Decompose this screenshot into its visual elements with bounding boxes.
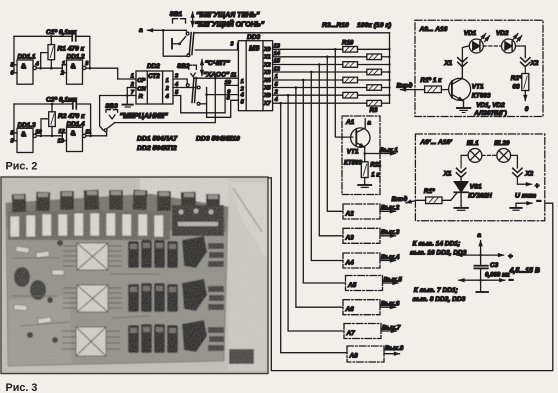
svg-text:DD3 564ИЕ10: DD3 564ИЕ10 <box>196 136 240 143</box>
svg-text:VD2: VD2 <box>496 30 509 37</box>
photo Ris3 PCB <box>1 177 268 374</box>
resistor R7 <box>367 69 390 75</box>
wire X6 row <box>273 94 343 96</box>
svg-text:Вых.4: Вых.4 <box>381 254 400 261</box>
photo grain overlay <box>1 177 268 374</box>
node a stub in A1 <box>365 119 371 128</box>
svg-text:А2: А2 <box>345 210 355 217</box>
resistor R4 <box>343 92 390 98</box>
svg-text:X0: X0 <box>263 47 271 53</box>
svg-text:СТ2: СТ2 <box>148 73 160 80</box>
SB2 blade chevron <box>191 73 195 77</box>
svg-text:Рис. 3: Рис. 3 <box>6 382 38 393</box>
svg-text:VS1: VS1 <box>470 184 483 191</box>
wire Vyh7 <box>381 330 397 332</box>
SB2 actuator bracket <box>189 65 197 69</box>
svg-text:“МЕРЦАНИЕ”: “МЕРЦАНИЕ” <box>120 111 169 120</box>
IC chips column <box>76 243 108 356</box>
svg-text:8: 8 <box>227 96 231 102</box>
node junction R1 bottom <box>50 67 53 70</box>
svg-text:DD1.1: DD1.1 <box>18 54 37 61</box>
svg-text:4: 4 <box>274 97 279 103</box>
node junction R stub <box>126 94 129 97</box>
svg-text:R2 470 к: R2 470 к <box>58 113 85 120</box>
resistor R6 <box>343 77 390 83</box>
svg-text:4: 4 <box>165 94 170 100</box>
dark module top right <box>172 205 224 236</box>
resistor R11 <box>361 154 368 185</box>
wire CN-R ground vertical <box>126 88 128 105</box>
wire SB1 lower contact feed <box>163 30 187 56</box>
cell A3 dashed box <box>343 228 380 243</box>
svg-text:X5: X5 <box>263 86 272 92</box>
svg-text:X7: X7 <box>263 101 272 107</box>
node junction rail r4 <box>388 94 390 96</box>
svg-text:С2* 0,1мк: С2* 0,1мк <box>46 97 77 104</box>
wire to DD3 pin8 <box>207 100 239 117</box>
svg-text:КТ603: КТ603 <box>472 92 491 99</box>
svg-text:14: 14 <box>274 51 281 57</box>
svg-text:4: 4 <box>240 92 245 98</box>
svg-text:Вход: Вход <box>397 82 413 90</box>
node junction R2 tap <box>40 135 43 138</box>
wire minus supply line <box>459 279 505 281</box>
switch SB3 МЕРЦАНИЕ <box>100 96 118 132</box>
svg-text:2: 2 <box>60 71 65 77</box>
svg-text:Вых.3: Вых.3 <box>381 229 400 236</box>
svg-text:Вых.7: Вых.7 <box>382 324 401 331</box>
svg-text:11: 11 <box>231 73 237 79</box>
svg-text:КУ202Н: КУ202Н <box>468 193 492 200</box>
wire DD1.2 out to DD2 CP <box>86 68 136 79</box>
svg-text:VT1: VT1 <box>347 149 359 156</box>
resistor R3 <box>367 100 390 106</box>
resistor R9 <box>367 54 390 60</box>
chip legs <box>62 246 122 349</box>
lamp EL1 <box>468 149 482 163</box>
wire Vyh4 <box>380 260 396 262</box>
transistor VT1 KT503 <box>351 128 370 154</box>
svg-text:А4: А4 <box>345 259 355 266</box>
wire X4 row <box>273 79 343 81</box>
node junction X1 <box>326 56 329 59</box>
svg-text:DD1 564ЛА7: DD1 564ЛА7 <box>137 136 178 143</box>
relay clusters right <box>128 236 207 353</box>
node junction R2 bottom <box>51 135 54 138</box>
node junction minus line <box>479 279 482 282</box>
wire X0 row <box>273 48 343 50</box>
node junction pin11 wire <box>214 77 217 80</box>
svg-text:А6: А6 <box>345 306 355 313</box>
wire C2 to DD1.4 output <box>77 104 91 136</box>
top row of transistors <box>12 190 220 213</box>
node junction plus line <box>479 254 482 257</box>
wire right rail <box>389 33 391 103</box>
svg-text:R: R <box>139 94 144 100</box>
svg-text:EL1: EL1 <box>467 140 479 147</box>
svg-text:R11: R11 <box>370 162 381 169</box>
svg-text:CP: CP <box>137 78 145 84</box>
svg-text:−: − <box>536 196 541 205</box>
svg-text:0: 0 <box>525 106 529 113</box>
svg-text:&: & <box>71 131 76 138</box>
node junction rail r9 <box>388 56 390 58</box>
svg-text:VD1: VD1 <box>464 30 477 37</box>
wire drop X0 to A1 base <box>335 49 353 137</box>
svg-text:X3: X3 <box>263 70 271 76</box>
wire osc2 top <box>14 103 72 105</box>
svg-text:5: 5 <box>241 99 245 105</box>
ground bar power <box>476 291 488 293</box>
svg-text:SB3: SB3 <box>105 103 118 110</box>
svg-text:VT1: VT1 <box>472 84 484 91</box>
svg-text:CN: CN <box>137 86 146 92</box>
node junction X2 <box>318 63 321 66</box>
gate DD1.4 <box>62 127 86 151</box>
svg-text:А9... А16: А9... А16 <box>419 26 448 33</box>
svg-text:R1 470 к: R1 470 к <box>58 45 85 52</box>
wire SB2 lower contact to node <box>200 103 207 105</box>
wire DD2 CN stub <box>127 87 136 89</box>
wire VS1 to X1' <box>460 178 462 182</box>
svg-text:1: 1 <box>131 74 134 80</box>
ground box1 <box>457 108 470 113</box>
svg-text:SB1: SB1 <box>170 11 183 18</box>
resistor R10 <box>343 47 390 53</box>
wire Vyh1 <box>365 153 396 155</box>
node junction R1 tap <box>39 67 42 70</box>
svg-text:А9ʼ... А16ʼ: А9ʼ... А16ʼ <box>419 139 452 146</box>
svg-text:13: 13 <box>274 43 281 49</box>
wire dashed EL1-EL20 <box>482 154 497 156</box>
svg-text:А5: А5 <box>347 282 357 289</box>
svg-text:X2: X2 <box>263 62 271 68</box>
wire X1' to EL1 <box>461 154 468 156</box>
svg-text:А3: А3 <box>345 235 355 242</box>
wire node a vertical <box>480 241 482 252</box>
svg-text:EL20: EL20 <box>494 140 510 147</box>
wire DD1.4 out to SB3 <box>86 132 107 136</box>
svg-text:X6: X6 <box>263 93 272 99</box>
connector X2 box2 <box>513 168 522 184</box>
svg-text:R1* 1 к: R1* 1 к <box>420 77 442 84</box>
cell A6 dashed box <box>343 300 380 315</box>
wire DD2 pin5 to DD3 pin10 <box>173 85 238 112</box>
svg-text:4: 4 <box>35 62 40 68</box>
SB2 position arrow <box>201 60 203 76</box>
wire EL20 to X2' <box>511 155 518 168</box>
wire gate to VS1 <box>442 193 457 200</box>
svg-text:R3...R10: R3...R10 <box>322 22 349 29</box>
wire X1 row <box>273 56 367 58</box>
svg-text:R1*: R1* <box>424 188 435 195</box>
svg-text:+: + <box>535 181 540 190</box>
svg-text:выв. 8 DD2, DD3: выв. 8 DD2, DD3 <box>413 296 466 303</box>
svg-text:&: & <box>71 63 76 70</box>
gate DD1.1 <box>14 60 36 84</box>
node junction X4 <box>302 79 305 82</box>
capacitor C1 <box>72 32 76 41</box>
wire DD2 R stub to SB3 <box>100 95 136 97</box>
node junction X3 <box>310 71 313 74</box>
node junction rail r10 <box>388 48 390 50</box>
svg-text:15: 15 <box>274 59 281 65</box>
svg-text:0,068 мк: 0,068 мк <box>485 272 510 279</box>
svg-text:1: 1 <box>62 61 65 67</box>
svg-text:АЛ307Б(Г): АЛ307Б(Г) <box>473 110 506 117</box>
svg-text:А1: А1 <box>345 119 355 126</box>
wire Vyh3 <box>380 235 396 237</box>
cell A2 dashed box <box>343 204 380 219</box>
ground VS1 <box>454 208 468 210</box>
ground A1 <box>358 185 371 187</box>
wire SB1 to DD3 pin3 <box>195 43 238 50</box>
wire Upit minus <box>516 203 532 207</box>
wire DD1.1 out to DD1.2 in <box>36 67 62 69</box>
cell A1 dashed box <box>342 116 380 195</box>
connector X1 box1 <box>458 58 467 79</box>
wire Vyh2 <box>380 210 396 212</box>
wire drop X3 to A4 <box>311 72 343 261</box>
svg-text:X1: X1 <box>443 60 452 67</box>
ground Upit <box>510 208 521 210</box>
svg-text:DD2: DD2 <box>147 63 160 70</box>
svg-text:С3: С3 <box>490 262 499 269</box>
wire drop X5 to A6 <box>296 88 343 308</box>
wire drop X2 to A3 <box>319 65 343 236</box>
svg-text:Вход: Вход <box>392 195 408 203</box>
wire SB2 node vertical <box>206 88 208 118</box>
svg-text:С1* 0,1мк: С1* 0,1мк <box>46 29 77 36</box>
svg-text:X2: X2 <box>524 170 533 177</box>
svg-text:11: 11 <box>85 129 91 135</box>
node junction R1 top <box>50 35 53 38</box>
capacitor C2 <box>73 99 77 108</box>
svg-text:3: 3 <box>230 41 234 47</box>
svg-text:R10: R10 <box>342 40 354 47</box>
svg-text:Вых.5: Вых.5 <box>384 276 403 283</box>
svg-text:R2*: R2* <box>511 75 522 82</box>
SB1 position arrow <box>192 12 194 27</box>
wire X5 row <box>273 87 367 89</box>
wire to DD3 pin9 <box>207 94 239 96</box>
wire C1 to DD1.2 output <box>76 36 90 68</box>
resistor R1 <box>48 36 55 68</box>
svg-text:10: 10 <box>225 80 232 86</box>
svg-text:выв. 16 DD2, DD3: выв. 16 DD2, DD3 <box>410 250 467 257</box>
node junction rail r5 <box>388 86 390 88</box>
svg-text:100к (10 к): 100к (10 к) <box>357 22 392 29</box>
SB1 actuator bracket <box>173 19 186 23</box>
right edge bar stacks <box>208 243 224 351</box>
connector X1 box2 <box>456 155 465 177</box>
lamp EL20 <box>497 149 511 163</box>
svg-text:1 к: 1 к <box>371 171 380 178</box>
svg-text:КТ503: КТ503 <box>344 159 363 166</box>
left area small parts <box>14 246 64 324</box>
node junction rail r6 <box>388 79 390 81</box>
svg-text:1: 1 <box>275 74 278 80</box>
svg-text:К выв. 7 DD1;: К выв. 7 DD1; <box>414 287 458 294</box>
wire top rail from node a <box>148 29 187 31</box>
wire dashed VD1-VD2 <box>484 45 502 47</box>
cell A5 dashed box <box>346 276 383 291</box>
wire X7 row <box>273 102 367 104</box>
svg-text:+: + <box>508 251 513 260</box>
wire Vyh8 <box>384 353 400 355</box>
svg-text:3: 3 <box>85 61 89 67</box>
wire drop X4 to A5 <box>303 80 345 283</box>
cell A7 dashed box <box>344 324 381 339</box>
svg-text:2: 2 <box>165 86 170 92</box>
svg-text:А7: А7 <box>346 330 356 337</box>
wire VD2 to X2 <box>516 46 526 58</box>
bright capacitor row <box>10 213 164 237</box>
node junction X5 <box>295 86 298 89</box>
DD3 decoder 564ИЕ10 <box>238 41 272 111</box>
svg-text:SB2: SB2 <box>177 63 190 70</box>
wire Vyh6 <box>380 306 396 308</box>
wire SB1 to top rail <box>194 32 390 34</box>
wire DD1.1 input vertical <box>13 36 15 73</box>
svg-text:X2: X2 <box>530 60 539 67</box>
thyristor VS1 <box>454 182 468 208</box>
wire R2 side tap <box>41 119 48 136</box>
svg-text:13: 13 <box>58 139 65 145</box>
wire X3 row <box>273 71 367 73</box>
wire DD1.3 input vertical <box>13 104 15 141</box>
svg-text:Вых.1: Вых.1 <box>380 147 399 154</box>
node junction X6 <box>287 94 290 97</box>
wire Vhod arrow box2 <box>406 200 426 203</box>
svg-text:12: 12 <box>59 129 66 135</box>
gate DD1.3 <box>14 128 36 152</box>
wire Upit plus <box>517 183 531 185</box>
node junction emitter <box>363 152 366 155</box>
capacitor C3 <box>474 266 487 269</box>
resistor R8 <box>343 62 390 68</box>
svg-text:“БЕГУЩАЯ ТЕНЬ”: “БЕГУЩАЯ ТЕНЬ” <box>196 12 260 19</box>
node junction X7 <box>279 102 282 105</box>
wire a to C3 <box>480 251 482 265</box>
node junction X0 <box>334 48 337 51</box>
svg-text:X1: X1 <box>263 55 271 61</box>
svg-text:Вых.6: Вых.6 <box>381 301 400 308</box>
svg-text:R3: R3 <box>370 107 378 114</box>
resistor R5 <box>367 85 390 91</box>
cell A4 dashed box <box>343 253 380 268</box>
wire DD1.3 out to DD1.4 in <box>36 135 62 137</box>
wire drop X6 to A7 <box>288 95 344 331</box>
node junction C2 return <box>89 135 92 138</box>
svg-text:1: 1 <box>166 78 169 84</box>
svg-text:DD1.3: DD1.3 <box>18 122 37 129</box>
resistor R1*' <box>426 197 442 204</box>
svg-text:&: & <box>21 132 26 139</box>
wire C3 to minus line <box>480 269 482 292</box>
node junction R2 top <box>51 103 54 106</box>
connector X2 box1 <box>521 58 530 74</box>
svg-text:U пит: U пит <box>515 193 536 200</box>
svg-text:а: а <box>477 232 481 239</box>
switch SB2 СЧЕТ/ХАОС <box>173 78 200 106</box>
node junction rail r8 <box>388 63 390 65</box>
node junction C1 return <box>89 67 92 70</box>
gate DD1.2 <box>62 60 86 84</box>
module A9...A16 dashed box <box>415 20 543 116</box>
ground DD2 <box>123 105 133 107</box>
svg-text:“БЕГУЩИЙ ОГОНЬ”: “БЕГУЩИЙ ОГОНЬ” <box>195 19 265 28</box>
svg-text:DD1.4: DD1.4 <box>67 121 86 128</box>
svg-text:DD3: DD3 <box>247 34 261 41</box>
svg-text:X4: X4 <box>263 78 271 84</box>
transistor VT1 KT603 <box>449 46 471 108</box>
cell A8 dashed box <box>347 346 384 362</box>
node junction SB1 <box>162 29 165 32</box>
resistor R2* 68 <box>522 74 529 101</box>
wire drop X7 to A8 <box>281 103 347 353</box>
svg-text:“СЧЕТ”: “СЧЕТ” <box>205 60 231 67</box>
svg-text:X1: X1 <box>443 170 452 177</box>
wire SB2 blade to DD3 pin11 <box>195 77 239 79</box>
svg-text:DD2 564КП2: DD2 564КП2 <box>137 145 177 152</box>
svg-text:А8: А8 <box>349 353 359 360</box>
svg-text:1: 1 <box>241 79 244 85</box>
svg-text:Вых.2: Вых.2 <box>381 205 400 212</box>
node junction rail r7 <box>388 71 390 73</box>
wire Vhod arrow box1 <box>401 89 425 91</box>
wire minus return outer <box>268 178 553 371</box>
svg-text:4,5...15 В: 4,5...15 В <box>509 268 540 275</box>
node junction pin9 <box>205 93 208 96</box>
wire Vyh5 <box>383 282 399 284</box>
wire plus supply line <box>457 254 504 256</box>
wire osc1 top <box>14 35 72 37</box>
svg-text:VD1, VD2: VD1, VD2 <box>476 102 505 109</box>
module A9'...A16' dashed box <box>415 134 544 221</box>
wire X2 row <box>273 64 343 66</box>
photo border <box>1 177 268 374</box>
led VD1 <box>469 34 489 53</box>
wire drop X1 to A2 <box>327 57 343 212</box>
svg-text:−: − <box>509 276 514 285</box>
resistor R2 <box>49 104 56 136</box>
wire SB3 rail to DD3 area <box>115 78 216 122</box>
led VD2 <box>502 34 522 53</box>
wire R1 side tap <box>41 53 48 69</box>
svg-text:MS: MS <box>249 46 260 53</box>
svg-text:а: а <box>139 27 143 34</box>
svg-text:&: & <box>21 63 26 70</box>
resistor R1* 1к <box>425 86 449 93</box>
svg-text:К выв. 14 DD1;: К выв. 14 DD1; <box>413 240 461 247</box>
DD2 counter 564КП2 <box>136 71 173 104</box>
svg-text:68: 68 <box>512 83 520 90</box>
svg-text:Вых.8: Вых.8 <box>385 345 404 352</box>
svg-text:а: а <box>367 120 371 127</box>
svg-text:Рис. 2: Рис. 2 <box>6 161 38 173</box>
switch SB1 <box>172 30 194 56</box>
svg-text:DD1.2: DD1.2 <box>67 54 86 61</box>
